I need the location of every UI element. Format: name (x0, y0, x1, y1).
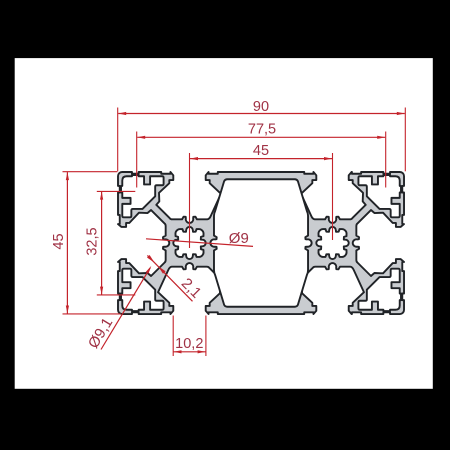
corner chamber cavity top-right (358, 175, 401, 217)
svg-text:90: 90 (253, 99, 269, 115)
dimension 10.2 bottom (173, 351, 205, 353)
svg-text:45: 45 (253, 143, 269, 159)
dimension 90 top (118, 113, 405, 115)
dimension 32.5 (101, 192, 103, 295)
dimension 77.5 (137, 136, 385, 138)
dimension 45 top (190, 158, 332, 160)
right core screw hole (diameter 9) (316, 227, 348, 259)
leader diameter 9 (146, 239, 253, 247)
dimension 2.1 wall (147, 255, 192, 301)
svg-text:32,5: 32,5 (84, 227, 100, 255)
dimension 45 left (66, 172, 68, 313)
central hollow chamber (210, 179, 311, 307)
white drawing sheet (15, 58, 433, 389)
svg-text:77,5: 77,5 (248, 122, 276, 138)
corner chamber cavity bottom-left (121, 269, 164, 311)
svg-text:45: 45 (51, 233, 67, 249)
corner chamber cavity bottom-right (358, 269, 401, 311)
aluminium profile 45x90 outer contour with six T-slot openings (118, 172, 404, 314)
corner chamber cavity top-left (121, 175, 164, 217)
leader diameter 9.1 (101, 268, 150, 350)
svg-text:10,2: 10,2 (175, 336, 203, 352)
svg-text:Ø9: Ø9 (229, 230, 249, 247)
left core screw hole (diameter 9) (173, 227, 205, 259)
